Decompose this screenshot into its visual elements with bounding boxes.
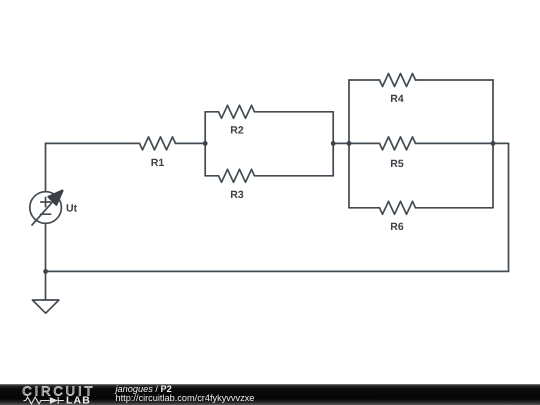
wire: source top to main rail [45,143,47,191]
junction dot node B [331,141,336,146]
wire: R3 bottom rail left stub [205,175,218,177]
wire: right vertical return [508,143,510,271]
svg-text:LAB: LAB [66,395,91,405]
wire: R2 top rail right segment [255,111,334,113]
svg-text:R5: R5 [390,158,404,170]
svg-text:R4: R4 [390,93,404,105]
wire: R4 top rail right segment [416,79,494,81]
wire: R2R3 right rail [332,112,334,176]
svg-text:R6: R6 [390,221,404,233]
wire: bottom return rail [46,270,509,272]
voltage source Ut circle [30,192,62,224]
wire: R6 bottom rail right segment [416,207,494,209]
junction dot ground node [43,269,48,274]
wire: R456 right rail [492,80,494,208]
wire: R6 bottom rail left stub [349,207,380,209]
svg-text:R2: R2 [230,125,244,137]
svg-text:R3: R3 [230,189,244,201]
CircuitLab logo [0,384,110,405]
wire: R5 mid rail left stub [349,142,380,144]
source plus sign [41,197,51,206]
wire: R4 top rail left stub [349,79,380,81]
resistor R3 [219,169,255,182]
resistor R2 [219,105,255,118]
source arrow head [49,191,63,205]
resistor R5 [380,137,416,150]
source arrow shaft [32,199,55,225]
wire: R456 left rail [348,80,350,208]
wire: ground node to ground symbol [45,271,47,300]
wire: source bottom to ground node [45,223,47,271]
wire: R2 top rail left stub [205,111,218,113]
source minus sign [41,213,51,215]
junction dot node A [203,141,208,146]
svg-text:R1: R1 [151,157,165,169]
junction dot node C [347,141,352,146]
resistor R4 [380,74,416,87]
resistor R1 [140,137,176,150]
junction dot node D [491,141,496,146]
wire: R3 bottom rail right segment [255,175,334,177]
svg-text:Ut: Ut [66,203,78,215]
wire: node D to right corner [493,142,509,144]
ground [32,300,59,313]
footer bar [0,384,540,405]
wire: node B to node C [333,142,349,144]
wire: R5 mid rail right segment [416,142,494,144]
footer title text [116,385,255,404]
wire: R1 to node A [176,142,206,144]
resistor R6 [380,201,416,214]
wire: R2R3 left rail [204,112,206,176]
wire: main rail left horizontal to R1 [46,142,140,144]
